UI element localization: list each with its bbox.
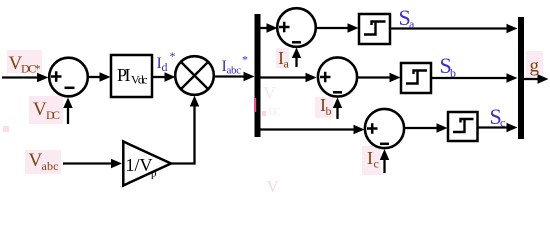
svg-text:g: g xyxy=(530,56,540,77)
svg-text:I: I xyxy=(367,148,373,168)
svg-text:PI: PI xyxy=(117,65,131,85)
svg-text:V: V xyxy=(263,83,276,103)
svg-text:a: a xyxy=(284,57,290,71)
svg-text:DC*: DC* xyxy=(21,62,41,76)
svg-text:c: c xyxy=(374,157,379,171)
svg-text:Vdc: Vdc xyxy=(131,73,148,87)
svg-text:b: b xyxy=(326,104,332,118)
svg-text:abc: abc xyxy=(42,159,59,173)
svg-text:c: c xyxy=(500,116,505,130)
svg-text:a: a xyxy=(409,17,415,31)
svg-text:d: d xyxy=(162,60,168,74)
svg-text:V: V xyxy=(267,177,280,194)
svg-text:p: p xyxy=(151,168,157,180)
svg-text:abc: abc xyxy=(227,65,242,77)
svg-text:V: V xyxy=(33,99,47,120)
svg-text:*: * xyxy=(170,49,176,63)
svg-text:1/V: 1/V xyxy=(126,155,153,175)
svg-text:V: V xyxy=(29,150,43,171)
svg-text:*: * xyxy=(242,53,248,67)
svg-text:DC: DC xyxy=(269,106,281,118)
svg-text:b: b xyxy=(450,66,456,80)
svg-text:DC: DC xyxy=(46,108,60,122)
